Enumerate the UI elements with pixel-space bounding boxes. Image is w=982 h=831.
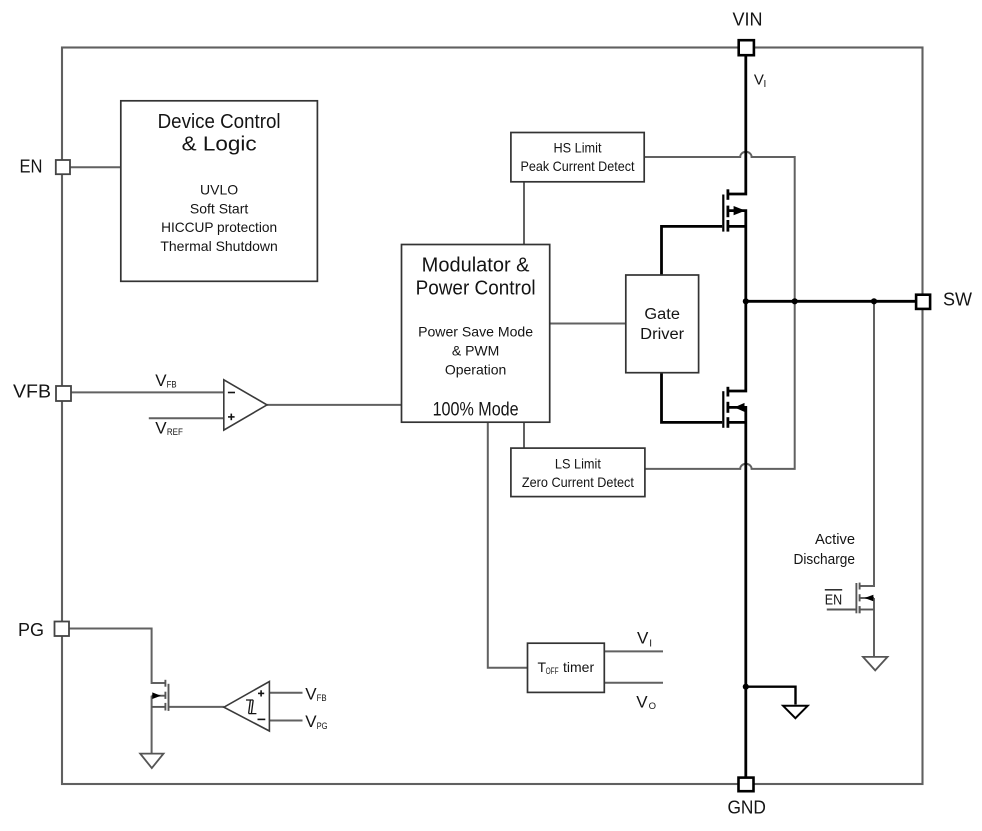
svg-text:HS Limit: HS Limit	[554, 140, 602, 156]
svg-text:REF: REF	[167, 427, 183, 438]
svg-text:UVLO: UVLO	[200, 182, 238, 198]
svg-text:O: O	[649, 701, 656, 712]
svg-text:& PWM: & PWM	[452, 343, 499, 359]
svg-text:OFF: OFF	[546, 666, 559, 676]
svg-text:Power Save Mode: Power Save Mode	[418, 324, 533, 340]
svg-text:V: V	[305, 684, 317, 703]
svg-text:Device Control: Device Control	[158, 111, 281, 133]
svg-text:I: I	[764, 79, 767, 90]
svg-text:Active: Active	[815, 532, 855, 548]
svg-text:V: V	[636, 693, 648, 712]
svg-text:Soft Start: Soft Start	[190, 200, 248, 216]
svg-text:Discharge: Discharge	[794, 552, 856, 568]
svg-text:V: V	[155, 371, 167, 390]
svg-text:V: V	[754, 71, 764, 88]
svg-text:EN: EN	[825, 591, 842, 608]
svg-text:I: I	[649, 638, 652, 649]
svg-text:LS Limit: LS Limit	[555, 456, 601, 472]
svg-text:VIN: VIN	[732, 10, 762, 30]
svg-text:FB: FB	[167, 380, 177, 391]
svg-text:Modulator &: Modulator &	[422, 254, 530, 276]
svg-text:GND: GND	[727, 798, 766, 818]
svg-text:& Logic: & Logic	[182, 134, 257, 156]
svg-text:timer: timer	[563, 659, 594, 675]
svg-text:Gate: Gate	[644, 306, 680, 323]
svg-text:SW: SW	[943, 290, 972, 310]
svg-text:EN: EN	[20, 157, 43, 177]
svg-text:Driver: Driver	[640, 326, 684, 343]
svg-text:V: V	[155, 418, 167, 437]
svg-text:Operation: Operation	[445, 362, 506, 378]
svg-text:Peak Current Detect: Peak Current Detect	[521, 158, 635, 174]
svg-text:VFB: VFB	[13, 382, 51, 402]
svg-text:PG: PG	[18, 620, 44, 640]
svg-text:PG: PG	[317, 721, 328, 732]
svg-text:V: V	[305, 712, 317, 731]
svg-text:FB: FB	[317, 693, 327, 704]
svg-text:V: V	[637, 629, 649, 648]
svg-text:HICCUP protection: HICCUP protection	[161, 219, 277, 235]
svg-text:Zero Current Detect: Zero Current Detect	[522, 474, 634, 490]
svg-text:Power Control: Power Control	[416, 277, 536, 299]
svg-text:100% Mode: 100% Mode	[433, 399, 519, 420]
svg-text:Thermal Shutdown: Thermal Shutdown	[160, 238, 278, 254]
